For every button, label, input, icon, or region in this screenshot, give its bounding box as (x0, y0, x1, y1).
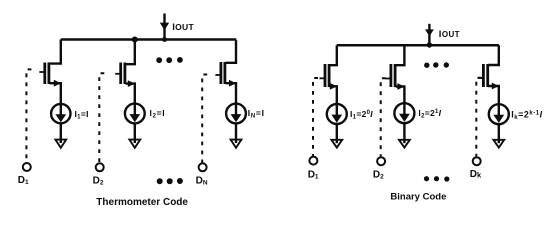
wire drain of M6 to output rail (488, 45, 499, 65)
svg-text:IOUT: IOUT (172, 22, 194, 33)
dashed control line Dk to switch gate (476, 78, 481, 157)
svg-text:D1: D1 (18, 175, 29, 186)
wire source of M1 (arrow) down to current source (49, 80, 60, 105)
wire source of M4 (arrow) down to current source (330, 83, 337, 105)
wire drain of M2 to output rail (125, 40, 134, 65)
ground (supply arrow) below I2 (129, 140, 140, 148)
wire drain of M1 to output rail (49, 40, 60, 64)
input terminal D1 (binary) (309, 157, 317, 165)
ground (supply arrow) below I1 (55, 140, 66, 148)
ground (supply arrow) below I4 (331, 140, 342, 148)
svg-text:DN: DN (196, 176, 208, 187)
node IOUT arrow (left DAC output current) (160, 14, 169, 42)
svg-text:D2: D2 (93, 176, 104, 187)
transistor M6 (switch) (478, 64, 488, 87)
svg-text:Dk: Dk (470, 169, 482, 180)
ground (supply arrow) below I5 (399, 140, 410, 148)
wire source of M5 (arrow) down to current source (396, 83, 405, 104)
wire output rail (left DAC) (61, 38, 237, 41)
junction dot on left rail (132, 37, 138, 43)
current source I3 (226, 104, 246, 124)
svg-text:IOUT: IOUT (439, 29, 460, 40)
current source I2 (125, 104, 145, 124)
current source I5 (394, 103, 414, 123)
svg-text:I1=20I: I1=20I (350, 109, 373, 121)
ellipsis dots between D2 and DN (left) (157, 178, 183, 184)
wire current source I4 to ground arrow (336, 124, 338, 143)
node IOUT arrow (right DAC output current) (425, 24, 434, 48)
dashed control line D2 to switch gate (99, 73, 104, 162)
svg-text:I2=I: I2=I (150, 108, 166, 120)
svg-text:I1=I: I1=I (75, 109, 89, 121)
ground (supply arrow) below I3 (231, 140, 242, 148)
svg-text:D1: D1 (308, 170, 319, 181)
svg-text:D2: D2 (373, 170, 384, 181)
dashed control line DN to switch gate (202, 75, 207, 163)
transistor M5 (switch) (385, 64, 395, 87)
input terminal D2 (96, 163, 104, 171)
wire current source I5 to ground arrow (403, 123, 405, 143)
dashed control line D2 (binary) to switch gate (381, 78, 386, 156)
transistor M3 (switch) (215, 62, 225, 84)
ellipsis dots between M5 and M6 (right) (424, 62, 449, 68)
current source I4 (327, 104, 347, 124)
svg-text:IN=I: IN=I (248, 108, 265, 120)
svg-text:Ik=2k-1I: Ik=2k-1I (511, 110, 542, 122)
wire current source I6 to ground arrow (498, 124, 500, 143)
dashed control line D1 (binary) to switch gate (313, 78, 318, 156)
current source I6 (489, 104, 509, 124)
current source I1 (51, 104, 70, 123)
wire current source I1 to ground arrow (60, 123, 62, 143)
wire source of M2 (arrow) down to current source (125, 80, 134, 105)
svg-text:Binary Code: Binary Code (390, 192, 446, 203)
wire output rail (right DAC) (337, 44, 499, 47)
transistor M4 (switch) (320, 64, 330, 87)
wire drain of M4 to output rail (330, 45, 337, 65)
svg-text:I2=21I: I2=21I (418, 108, 441, 120)
wire source of M6 (arrow) down to current source (488, 83, 499, 106)
wire source of M3 (arrow) down to current source (225, 80, 236, 105)
wire drain of M5 to output rail (396, 45, 405, 65)
wire drain of M3 to output rail (225, 40, 236, 63)
input terminal D2 (binary) (377, 157, 385, 165)
wire current source I2 to ground arrow (134, 123, 136, 143)
ellipsis dots between M2 and M3 (left) (156, 57, 183, 63)
input terminal Dk (473, 157, 481, 165)
svg-text:Thermometer Code: Thermometer Code (96, 197, 188, 208)
input terminal DN (199, 163, 207, 171)
transistor M1 (switch) (39, 63, 49, 85)
wire current source I3 to ground arrow (235, 123, 237, 143)
input terminal D1 (23, 163, 31, 171)
ground (supply arrow) below I6 (493, 140, 504, 148)
ellipsis dots between D2 and Dk (right) (424, 176, 450, 182)
transistor M2 (switch) (115, 63, 125, 85)
dashed control line D1 to switch gate (26, 69, 31, 162)
